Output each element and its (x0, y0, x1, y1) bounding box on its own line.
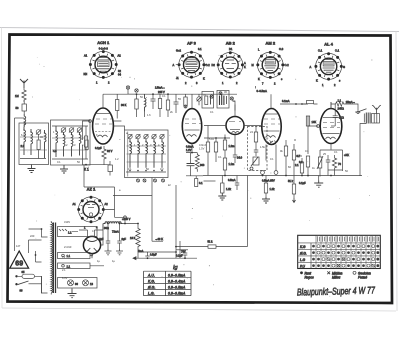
svg-text:10K: 10K (312, 120, 317, 124)
svg-text:4.8: 4.8 (53, 149, 57, 153)
switch contacts row (137, 179, 165, 182)
resistor R12 (302, 101, 318, 105)
winding box heater2 (58, 263, 91, 269)
ground G1 (28, 165, 36, 173)
svg-text:0.1: 0.1 (270, 157, 274, 161)
wire 99K line (152, 240, 163, 242)
winding box lamps (58, 278, 98, 289)
arrow down (293, 198, 296, 203)
ground G6 (105, 249, 112, 255)
filter box1 inner rows (20, 137, 47, 150)
svg-text:D1: D1 (229, 47, 233, 51)
coil L3 (31, 129, 33, 155)
main top bus +HT (103, 93, 237, 95)
bus stub second line (204, 180, 216, 182)
wire K1 line (83, 164, 111, 166)
svg-text:A1: A1 (84, 54, 88, 58)
wire mains loop (36, 251, 42, 262)
resistor R20 (284, 140, 287, 176)
svg-text:0.9mA: 0.9mA (186, 145, 194, 149)
svg-text:0.1: 0.1 (218, 155, 222, 159)
svg-text:A2: A2 (118, 54, 122, 58)
svg-text:6.3: 6.3 (21, 133, 25, 137)
coil L13 (154, 139, 156, 168)
resistor R22 2.1m (295, 158, 304, 176)
svg-text:A: A (310, 65, 312, 69)
page edge bottom (2, 308, 396, 311)
svg-text:0.1: 0.1 (334, 150, 338, 154)
svg-text:1μ: 1μ (112, 259, 115, 263)
svg-text:235 V: 235 V (158, 90, 165, 94)
svg-text:O.2: O.2 (285, 63, 290, 67)
svg-text:0.5mA: 0.5mA (228, 178, 236, 182)
svg-text:+KK: +KK (344, 153, 349, 157)
wire AM2 screen (279, 103, 281, 105)
svg-text:AZ 1: AZ 1 (87, 187, 96, 192)
svg-text:P.U: P.U (300, 264, 306, 268)
svg-text:1μ: 1μ (97, 259, 100, 263)
trimmer C11 (152, 134, 156, 138)
resistor R4 (85, 140, 88, 150)
wire 75V line (176, 249, 188, 251)
svg-text:2.2: 2.2 (21, 144, 25, 148)
wire AF7 anode top (191, 93, 193, 95)
coil L7 (72, 133, 74, 157)
resistor R27 0.2M (299, 156, 310, 177)
svg-text:4V: 4V (62, 255, 65, 259)
resistor R24 51k (176, 240, 216, 249)
svg-text:72mA: 72mA (112, 230, 119, 234)
coil L5 (56, 126, 58, 157)
rectifier V6 AZ1 envelope (83, 224, 103, 259)
wire speaker return (360, 124, 366, 177)
svg-text:K.G.: K.G. (148, 279, 155, 283)
fuse F1 (15, 270, 41, 278)
svg-text:Fermé: Fermé (358, 275, 367, 279)
svg-text:0.9–0.5mA: 0.9–0.5mA (168, 292, 186, 296)
node dot (295, 103, 297, 105)
resistor R8 (166, 94, 169, 117)
svg-text:Repos: Repos (305, 275, 315, 279)
ground G3 (218, 193, 226, 200)
svg-text:Ø.G.: Ø.G. (299, 252, 307, 256)
filter coil dots (23, 129, 80, 135)
wire screen from V1 to bus (113, 121, 124, 130)
tube V3 AB2 envelope (226, 111, 244, 135)
capacitor C3 trimmer (61, 128, 66, 133)
capacitor C7 (174, 94, 179, 113)
svg-text:0.9–0.5mA: 0.9–0.5mA (168, 273, 186, 277)
row 4 symbols (312, 264, 379, 267)
svg-text:Milieu: Milieu (332, 275, 341, 279)
resistor R2 (37, 140, 40, 150)
capacitor C25 (183, 250, 188, 259)
svg-text:0.1: 0.1 (199, 181, 203, 185)
scan speckle noise (28, 55, 373, 297)
svg-text:ACH 1: ACH 1 (97, 40, 110, 45)
trimmer C9 (136, 134, 140, 138)
tube socket U6 AZ1 (top view) (73, 187, 109, 230)
svg-text:300: 300 (200, 163, 205, 167)
svg-text:1.2k: 1.2k (270, 187, 276, 191)
capacitor C5 trimmer (77, 128, 82, 133)
coil L9 osc (145, 94, 147, 117)
svg-text:310V: 310V (64, 220, 70, 224)
coil L14 (162, 139, 164, 168)
svg-text:0.1μF: 0.1μF (176, 254, 183, 258)
resistor R23 1.2k (221, 176, 232, 194)
row 3 symbols (312, 257, 379, 260)
pilot lamp E2 (83, 280, 89, 286)
choke L16 30ohm (103, 216, 138, 234)
trimmer C10 (144, 134, 148, 138)
wire g2 AL4 (308, 116, 318, 126)
svg-text:1.2m: 1.2m (229, 144, 235, 148)
svg-text:2.1: 2.1 (62, 268, 66, 272)
resistor R17 1.2m (223, 135, 234, 159)
resistor R14 10k (306, 116, 316, 154)
ground G7 (116, 249, 123, 255)
band switch inner rows (127, 146, 167, 162)
svg-text:AB 2: AB 2 (226, 41, 236, 46)
resistor R5 30k (116, 94, 127, 118)
svg-text:Ø.G.: Ø.G. (147, 286, 156, 290)
band filter box FL1 (19, 123, 49, 165)
wire AB2 stem top (234, 101, 236, 111)
wire anode feeds (79, 229, 103, 231)
svg-text:1.1: 1.1 (67, 254, 71, 258)
resistor R30 (195, 176, 204, 187)
svg-text:51 k: 51 k (208, 240, 214, 244)
svg-text:K.G: K.G (300, 245, 306, 249)
resistor R13 245ohm field (331, 99, 356, 111)
svg-text:AL 4: AL 4 (324, 42, 333, 47)
svg-text:0–0.5mA: 0–0.5mA (257, 89, 268, 93)
svg-text:G: G (343, 65, 345, 69)
svg-text:K: K (316, 79, 318, 83)
capacitor C13 (108, 161, 112, 176)
wire primary taps (29, 221, 52, 293)
svg-text:0.5μF: 0.5μF (150, 253, 157, 257)
wire vertical pair (176, 185, 180, 258)
svg-text:0.1: 0.1 (210, 110, 214, 114)
svg-text:O.3: O.3 (279, 47, 284, 51)
AM2 interior hatch (265, 141, 277, 143)
winding box HT (58, 227, 98, 237)
svg-text:Blaupunkt–Super 4 W 77: Blaupunkt–Super 4 W 77 (297, 285, 376, 298)
resistor R9 30ohm cathode (95, 146, 113, 161)
resistor R18 1.1m (223, 158, 234, 176)
switch S3 tone (346, 104, 367, 114)
transformer T1 primary (51, 223, 52, 293)
capacitor C6 (151, 94, 156, 109)
trimmer C8 (128, 134, 132, 138)
svg-text:G+2: G+2 (176, 49, 182, 53)
svg-text:1.2V: 1.2V (186, 148, 192, 152)
resistor R28 70 (332, 155, 341, 171)
resistor R10 (184, 94, 187, 108)
svg-text:A: A (173, 63, 175, 67)
tube socket U4 AM2 (top view) (252, 41, 290, 86)
jack J2 (274, 171, 278, 175)
wire AB2 to detector (204, 105, 262, 126)
svg-text:1.1m: 1.1m (229, 162, 235, 166)
switch S2a marks (126, 86, 138, 94)
tube V5 AL4 envelope (317, 102, 342, 144)
wire K1 drop (84, 165, 115, 196)
coil L1 antenna (24, 114, 26, 127)
resistor R1 1M (15, 88, 26, 102)
resistor R6 (135, 94, 138, 117)
wire AM2 feed (271, 94, 308, 108)
svg-text:1.5V: 1.5V (199, 147, 205, 151)
winding box heater1 (58, 253, 91, 259)
wire het line (113, 196, 152, 242)
svg-text:69: 69 (15, 261, 23, 268)
coil L12 (146, 139, 148, 168)
svg-text:8μF: 8μF (122, 237, 127, 241)
wire antenna to filter (23, 123, 25, 127)
svg-text:2×310: 2×310 (64, 245, 72, 249)
svg-text:1.2: 1.2 (115, 157, 119, 161)
page edge right (396, 31, 397, 311)
svg-text:A1: A1 (73, 202, 77, 206)
svg-text:K 1: K 1 (84, 168, 89, 172)
svg-text:O.1: O.1 (335, 49, 340, 53)
ground G2 (60, 165, 68, 173)
capacitor C26 AF7 cathode (187, 153, 195, 176)
svg-text:A: A (244, 61, 246, 65)
svg-text:30 K: 30 K (121, 103, 127, 107)
page edge top (0, 28, 399, 32)
punch table TBL (298, 235, 381, 268)
wire AF7 cathode (186, 143, 203, 175)
capacitor C1 (16, 100, 27, 114)
ground G8 (68, 289, 77, 298)
svg-text:A.U.: A.U. (147, 273, 155, 277)
wire long vertical to AF bias (216, 176, 248, 247)
resistor R16 (214, 138, 217, 162)
resistor R15 (206, 126, 209, 176)
capacitor C4 trimmer (69, 128, 74, 133)
svg-text:0.1μF: 0.1μF (95, 146, 102, 150)
row 2 symbols (312, 251, 379, 254)
svg-text:0.9mA: 0.9mA (199, 143, 207, 147)
band switch contact dots (129, 141, 163, 171)
switch S1 (15, 276, 41, 293)
tube socket U2 AF7 (top view) (173, 41, 211, 86)
svg-text:K: K (203, 77, 205, 81)
svg-text:→99 K: →99 K (155, 237, 163, 241)
wire g1 feed (294, 140, 302, 156)
svg-text:A2: A2 (105, 202, 109, 206)
resistor R26 (292, 176, 295, 199)
border frame (8, 35, 393, 304)
svg-text:5.1k: 5.1k (209, 137, 215, 141)
table Ig (144, 265, 192, 296)
svg-text:0.1: 0.1 (57, 160, 61, 164)
band switch box SW1 (125, 130, 169, 178)
wire det bus (204, 135, 235, 153)
coil L4 (45, 130, 47, 158)
wire left to grid (82, 145, 84, 165)
wire cathode k AL4 (320, 144, 343, 176)
resistor R21 0.7 (292, 144, 300, 176)
resistor R25 7.2k (264, 176, 275, 198)
svg-text:L.G.: L.G. (148, 292, 155, 296)
svg-text:0.2: 0.2 (299, 160, 303, 164)
svg-text:24.0: 24.0 (237, 156, 243, 160)
wire mid bus (203, 175, 362, 177)
svg-text:4μF: 4μF (99, 237, 104, 241)
svg-text:2.5mA→: 2.5mA→ (155, 86, 165, 90)
svg-text:1.1: 1.1 (338, 99, 342, 103)
tube V2 AF7 envelope (182, 94, 201, 143)
header ticks (318, 236, 379, 241)
wire cathode bus (82, 164, 84, 166)
wire grid lead V1 (83, 121, 91, 140)
svg-text:92 V: 92 V (107, 149, 113, 153)
coil L2 (24, 127, 26, 155)
output transformer T2 (364, 113, 370, 124)
node dots bus (136, 93, 138, 95)
svg-text:6.3V: 6.3V (62, 276, 68, 280)
capacitor C18 (233, 152, 238, 163)
tube V1 ACH1 envelope (89, 94, 114, 144)
svg-text:0.1: 0.1 (198, 47, 202, 51)
ground G5 (314, 181, 323, 188)
svg-text:1M: 1M (15, 94, 19, 98)
warning triangle 69 (10, 251, 29, 268)
svg-text:O.2: O.2 (206, 63, 211, 67)
wire het drop (151, 178, 153, 196)
svg-text:0.1μF: 0.1μF (299, 181, 306, 185)
svg-text:M: M (252, 63, 254, 67)
antenna A (20, 79, 28, 88)
wire AM2 cathode leads (266, 145, 276, 171)
svg-text:16 K: 16 K (130, 236, 136, 240)
resistor R29 300 (195, 153, 205, 172)
trimmer C12 (160, 134, 164, 138)
svg-text:245Ω: 245Ω (338, 107, 344, 111)
svg-text:1.6: 1.6 (147, 113, 151, 117)
svg-text:5mA: 5mA (138, 249, 144, 253)
row 1 symbols (312, 245, 379, 248)
capacitor C21 (326, 155, 331, 170)
page edge left (1, 28, 4, 309)
field coil L17 (130, 223, 140, 250)
transformer T1 core (54, 223, 56, 294)
svg-text:0.1: 0.1 (162, 94, 166, 98)
IF can T4 (217, 91, 233, 109)
capacitor C24 (145, 252, 150, 259)
wire left rail (14, 118, 16, 251)
IF can T3 (202, 92, 214, 109)
svg-text:4mA: 4mA (355, 110, 361, 114)
jack J1 (261, 171, 265, 175)
capacitor C2 trimmer (36, 130, 41, 135)
tube socket U5 AL4 (top view) (310, 42, 346, 88)
svg-text:1.1: 1.1 (67, 264, 71, 268)
speaker LS1 (372, 105, 381, 123)
coil L11 (138, 139, 140, 168)
coil L10 (130, 139, 132, 168)
svg-text:0.1mA: 0.1mA (282, 99, 290, 103)
potentiometer P2 (317, 150, 323, 177)
legend (300, 271, 371, 279)
wire field coil bottom (138, 250, 176, 259)
svg-text:0.9–0.5mA: 0.9–0.5mA (168, 286, 186, 290)
svg-text:220: 220 (30, 234, 35, 238)
svg-text:0.5mA 85V: 0.5mA 85V (262, 179, 275, 183)
svg-text:K: K (244, 65, 246, 69)
pilot lamp E1 (68, 280, 74, 286)
svg-text:K: K (258, 77, 260, 81)
svg-text:31Ω: 31Ω (339, 116, 344, 120)
capacitor C22 elco (99, 223, 110, 249)
capacitor C20 (228, 176, 239, 191)
svg-text:25mA→: 25mA→ (346, 100, 356, 104)
svg-text:O.1: O.1 (318, 49, 323, 53)
capacitor C19 (254, 148, 258, 156)
svg-text:1.2k: 1.2k (226, 187, 232, 191)
svg-text:AM 2: AM 2 (266, 41, 276, 46)
svg-text:1.5k: 1.5k (260, 145, 266, 149)
tube socket U1 ACH1 (top view) (84, 40, 122, 85)
svg-text:KN: KN (84, 72, 88, 76)
wire heater runs (90, 254, 104, 266)
potentiometer P1 (253, 157, 259, 165)
filter box2 inner rows (52, 138, 88, 150)
band filter box FL2 (51, 120, 91, 165)
coil L6 (64, 133, 66, 157)
svg-text:1.1: 1.1 (68, 231, 72, 235)
svg-text:K: K (96, 133, 98, 137)
resistor R19 (254, 132, 257, 142)
coil L8 (80, 133, 82, 156)
tube socket U3 AB2 (top view) (212, 41, 247, 86)
svg-text:0.9–0.4mA: 0.9–0.4mA (168, 279, 186, 283)
capacitor C23 elco (117, 223, 126, 249)
resistor R7 (158, 94, 161, 117)
trimmer C14 (197, 94, 202, 105)
svg-text:D2: D2 (212, 63, 216, 67)
value labels scatter (16, 90, 361, 280)
resistor R3 (85, 136, 88, 147)
svg-text:L.G: L.G (300, 258, 306, 262)
wire Ig feed (133, 257, 197, 259)
capacitor C27 (333, 104, 344, 126)
svg-text:51 k: 51 k (288, 179, 294, 183)
svg-text:AF 3: AF 3 (187, 41, 196, 46)
ground G4 (262, 197, 270, 203)
svg-text:0·1+0·3: 0·1+0·3 (99, 47, 109, 51)
tube V4 AM2 envelope (262, 109, 281, 145)
volume box P1 (248, 127, 268, 171)
svg-text:127: 127 (16, 244, 21, 248)
svg-text:0.1: 0.1 (305, 149, 309, 153)
wire AZ1 socket right (104, 196, 124, 218)
